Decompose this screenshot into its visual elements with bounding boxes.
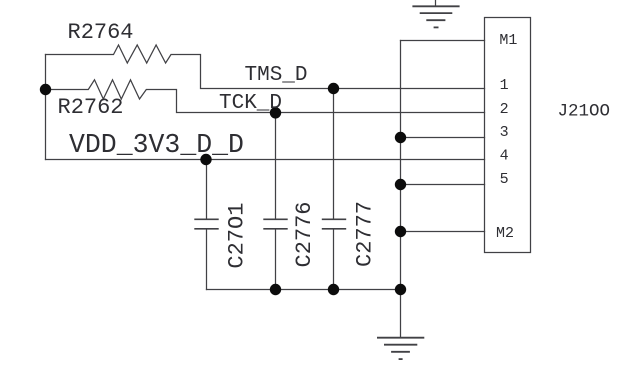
svg-text:5: 5 — [500, 171, 509, 188]
svg-text:C2776: C2776 — [292, 201, 317, 267]
svg-text:R2764: R2764 — [68, 20, 134, 45]
svg-text:2: 2 — [500, 101, 509, 118]
svg-text:C2777: C2777 — [353, 201, 378, 267]
svg-text:M1: M1 — [499, 32, 517, 49]
svg-text:M2: M2 — [496, 225, 514, 242]
svg-text:TMS_D: TMS_D — [245, 64, 308, 87]
svg-text:3: 3 — [500, 124, 509, 141]
svg-text:J21OO: J21OO — [558, 101, 611, 121]
svg-text:4: 4 — [500, 147, 509, 164]
svg-text:C27O1: C27O1 — [225, 203, 250, 269]
svg-text:R2762: R2762 — [58, 95, 124, 120]
svg-text:1: 1 — [500, 77, 509, 94]
svg-text:TCK_D: TCK_D — [219, 92, 282, 115]
svg-text:VDD_3V3_D_D: VDD_3V3_D_D — [69, 130, 244, 160]
